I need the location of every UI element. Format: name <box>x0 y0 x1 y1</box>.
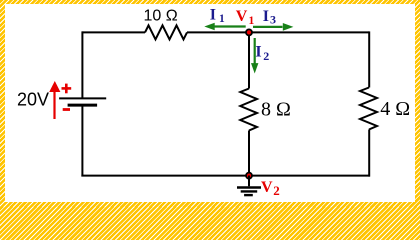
svg-text:V: V <box>236 8 248 25</box>
wire middle upper segment <box>248 32 250 88</box>
svg-text:V: V <box>261 179 273 196</box>
resistor R 10 ohm zigzag <box>145 25 187 39</box>
wire bottom-right segment <box>249 175 370 177</box>
node V1 label <box>236 8 255 27</box>
battery V 20V bottom plate (negative, short) <box>68 104 98 107</box>
wire top-right segment <box>249 31 369 33</box>
svg-text:1: 1 <box>219 13 225 25</box>
node V2 junction dot <box>246 173 252 179</box>
resistor 4 ohm zigzag <box>360 88 377 130</box>
svg-text:10 Ω: 10 Ω <box>144 8 178 25</box>
svg-text:3: 3 <box>270 12 276 26</box>
svg-text:2: 2 <box>263 49 269 63</box>
svg-text:I: I <box>210 7 216 24</box>
wire top-middle segment <box>187 31 249 33</box>
svg-text:20V: 20V <box>17 90 49 110</box>
svg-text:2: 2 <box>273 183 280 198</box>
current arrow I2 (green, pointing down) <box>251 38 258 74</box>
svg-text:8 Ω: 8 Ω <box>261 98 291 120</box>
wire right upper segment <box>368 31 370 87</box>
ground symbol <box>237 188 261 196</box>
svg-text:1: 1 <box>249 15 255 27</box>
ground stub wire <box>248 176 250 187</box>
wire bottom-left segment <box>81 175 249 177</box>
battery V 20V top plate (positive, long) <box>59 97 106 99</box>
wire right lower segment <box>368 130 370 177</box>
current label I1 <box>210 7 225 25</box>
current arrow I3 (green, pointing right) <box>253 23 293 31</box>
current label I2 <box>255 44 269 63</box>
svg-text:4 Ω: 4 Ω <box>380 98 410 120</box>
battery plus sign <box>62 84 72 94</box>
battery minus sign <box>63 108 70 111</box>
current label I3 <box>263 8 276 26</box>
wire middle lower segment <box>248 131 250 176</box>
resistor 8 ohm zigzag <box>240 89 257 131</box>
svg-text:I: I <box>263 8 269 25</box>
wire top-left segment <box>82 31 145 33</box>
node V2 label <box>261 179 280 198</box>
wire left lower segment <box>81 105 83 176</box>
current arrow I1 (green, pointing left) <box>204 23 245 30</box>
battery polarity arrow (red, up) <box>49 81 60 119</box>
wire left upper segment <box>81 31 83 98</box>
node V1 junction dot <box>246 29 252 35</box>
svg-text:I: I <box>255 44 261 61</box>
